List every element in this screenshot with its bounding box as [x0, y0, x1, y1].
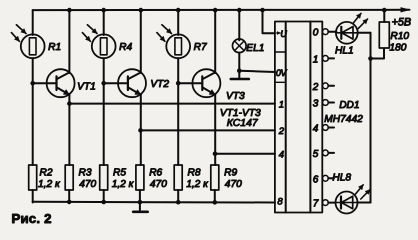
svg-text:180: 180 — [389, 42, 406, 53]
svg-text:VT1: VT1 — [77, 82, 96, 93]
svg-text:HL1: HL1 — [335, 46, 354, 57]
svg-text:6: 6 — [313, 174, 319, 185]
svg-text:МН7442: МН7442 — [324, 114, 363, 125]
svg-text:5: 5 — [313, 149, 319, 160]
svg-text:R3: R3 — [79, 168, 92, 179]
svg-text:R5: R5 — [113, 168, 126, 179]
svg-text:2: 2 — [312, 82, 319, 93]
svg-text:1: 1 — [279, 99, 284, 110]
svg-text:R8: R8 — [188, 168, 201, 179]
svg-text:1,2 к: 1,2 к — [112, 179, 135, 190]
svg-text:R2: R2 — [40, 168, 53, 179]
svg-text:2: 2 — [278, 126, 285, 137]
svg-text:VT3: VT3 — [226, 91, 245, 102]
svg-text:R4: R4 — [119, 42, 132, 53]
svg-text:КС147: КС147 — [227, 118, 259, 129]
svg-text:470: 470 — [150, 179, 167, 190]
svg-text:470: 470 — [225, 179, 242, 190]
svg-text:VT2: VT2 — [150, 79, 169, 90]
svg-text:+5B: +5B — [392, 16, 412, 28]
svg-text:1,2 к: 1,2 к — [38, 179, 61, 190]
svg-text:HL8: HL8 — [332, 172, 351, 183]
svg-text:EL1: EL1 — [246, 43, 264, 54]
svg-text:4: 4 — [313, 124, 319, 135]
svg-text:4: 4 — [279, 149, 284, 160]
svg-text:1,2 к: 1,2 к — [186, 179, 209, 190]
svg-text:R1: R1 — [48, 42, 61, 53]
svg-text:R10: R10 — [390, 31, 409, 42]
svg-text:DD1: DD1 — [339, 100, 359, 111]
svg-text:3: 3 — [313, 99, 319, 110]
svg-text:0: 0 — [313, 28, 319, 39]
svg-text:R6: R6 — [149, 168, 162, 179]
svg-text:1: 1 — [313, 54, 319, 65]
svg-text:Рис. 2: Рис. 2 — [12, 211, 52, 226]
svg-text:U: U — [280, 29, 287, 39]
svg-text:7: 7 — [313, 199, 319, 210]
svg-text:R7: R7 — [194, 42, 207, 53]
svg-text:R9: R9 — [224, 168, 237, 179]
svg-text:470: 470 — [79, 179, 96, 190]
svg-text:8: 8 — [277, 197, 283, 208]
svg-text:0V: 0V — [276, 68, 288, 78]
